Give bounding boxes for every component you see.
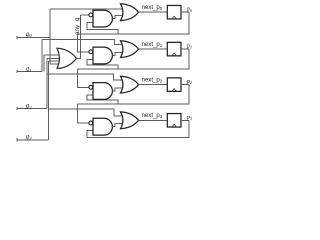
wire p0 feedback hook down to AND row 2 inverted input	[78, 34, 89, 52]
wire p1 feedback S-loop into AND row 2 lower input	[87, 60, 118, 70]
input port g1 tick	[16, 70, 18, 73]
wire p2 feedback S-loop into AND row 3 lower input	[87, 95, 118, 104]
wire g1 riser (x=42, up to row-2 feed)	[41, 40, 43, 72]
and-gate A1 row 1 (p0 AND not any_g)	[93, 10, 112, 27]
flip-flop FF4 (state p3)	[167, 114, 181, 128]
wire AND A1 output to OR O1 lower input	[112, 15, 124, 18]
wire g2 input	[17, 108, 47, 110]
wire g1 to any_g OR input 1	[44, 54, 61, 56]
wire p2 feedback (down and left)	[78, 85, 189, 104]
wire g1 feed line to OR row 2 top input (with step)	[42, 40, 125, 45]
inverter bubble on AND A2 input	[89, 50, 93, 54]
clock triangle of FF4	[172, 124, 176, 127]
wire next_p2 net (OR O3 to FF D input)	[139, 84, 168, 86]
or-gate O2 row 2 (next_p1)	[121, 41, 139, 58]
or-gate O1 row 1 (next_p0)	[121, 4, 139, 21]
wire p3 output	[181, 119, 189, 121]
wire g0 input	[17, 37, 50, 39]
wire p0 feedback S-loop into AND row 1 lower input	[87, 23, 118, 34]
wire g3 feed line to OR row 4 top input (with step)	[48, 109, 124, 116]
and-gate A2 row 2 (p1 AND not any_g)	[93, 47, 112, 64]
wire g3 riser (x=48.3)	[47, 61, 49, 140]
wire p0 feedback (down and left)	[78, 12, 189, 34]
wire g0 to any_g OR input 4	[50, 63, 60, 65]
wire AND A4 output to OR O4 lower input	[112, 124, 124, 127]
svg-text:next_p0: next_p0	[142, 4, 163, 11]
wire g2 to any_g OR input 2	[47, 57, 61, 59]
input port g3 tick	[16, 138, 18, 141]
wire g1 input	[17, 71, 42, 73]
wire next_p1 net (OR O2 to FF D input)	[139, 48, 168, 50]
wire p1 feedback (down and left)	[78, 49, 189, 69]
wire p1 feedback hook down to AND row 3 inverted input	[78, 69, 89, 87]
wire any_g output to distribution riser	[77, 15, 81, 58]
flip-flop FF2 (state p1)	[167, 42, 181, 56]
clock triangle of FF3	[172, 89, 176, 92]
wire p3 feedback (down and left)	[87, 120, 189, 137]
flip-flop FF3 (state p2)	[167, 78, 181, 92]
input port g0 tick	[16, 36, 18, 39]
wire p1 output	[181, 48, 189, 50]
wire next_p0 net (OR O1 to FF D input)	[139, 11, 168, 13]
wire g3 input	[17, 139, 49, 141]
inverter bubble on AND A4 input	[89, 121, 93, 125]
or-gate U5 any_g (4-input OR)	[57, 48, 77, 68]
input port g2 tick	[16, 107, 18, 110]
svg-text:next_p1: next_p1	[142, 41, 163, 48]
inverter bubble on AND A3 input	[89, 85, 93, 89]
wire g0 feed line to OR row 1 top input	[50, 8, 125, 10]
wire g1 branch riser (x=44)	[43, 55, 45, 71]
flip-flop FF1 (state p0)	[167, 5, 181, 19]
clock triangle of FF1	[172, 16, 176, 19]
clock triangle of FF2	[172, 53, 176, 56]
wire g2 riser (x=46.9)	[46, 58, 48, 108]
and-gate A3 row 3 (p2 AND not any_g)	[93, 83, 112, 100]
wire any_g to AND row 1 inverted input	[80, 14, 89, 16]
svg-text:next_p3: next_p3	[142, 112, 163, 119]
svg-text:any_g: any_g	[74, 17, 81, 35]
wire p0 output	[181, 11, 189, 13]
svg-text:next_p2: next_p2	[142, 76, 163, 83]
wire p3 feedback loop into AND row 4 lower input	[87, 131, 94, 138]
wire g0 riser (x=50, feed line down to any_g input 4)	[49, 9, 51, 64]
wire AND A3 output to OR O3 lower input	[112, 88, 124, 91]
wire next_p3 net (OR O4 to FF D input)	[139, 119, 168, 121]
inverter bubble on AND A1 input	[89, 13, 93, 17]
wire AND A2 output to OR O2 lower input	[112, 52, 124, 55]
or-gate O4 row 4 (next_p3)	[121, 112, 139, 129]
or-gate O3 row 3 (next_p2)	[121, 76, 139, 93]
wire p2 feedback hook down to AND row 4 inverted input	[78, 104, 89, 123]
wire p2 output	[181, 84, 189, 86]
and-gate A4 row 4 (p3 AND not any_g)	[93, 118, 112, 135]
wire g2 feed line to OR row 3 top input (with step)	[47, 74, 125, 80]
wire g3 to any_g OR input 3	[48, 60, 60, 62]
